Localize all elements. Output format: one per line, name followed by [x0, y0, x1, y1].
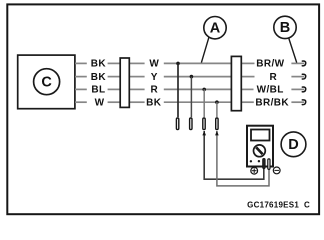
svg-text:BL: BL [91, 85, 105, 96]
svg-text:BR/BK: BR/BK [255, 97, 289, 108]
svg-text:W/BL: W/BL [257, 85, 284, 96]
svg-text:R: R [269, 72, 277, 83]
svg-text:B: B [280, 20, 290, 36]
svg-text:D: D [288, 137, 298, 153]
svg-text:BK: BK [91, 72, 107, 83]
svg-text:BK: BK [146, 97, 162, 108]
svg-text:A: A [210, 21, 221, 37]
svg-text:W: W [149, 59, 159, 70]
svg-text:W: W [95, 97, 105, 108]
svg-text:GC17619ES1 C: GC17619ES1 C [247, 200, 310, 209]
svg-text:BK: BK [91, 59, 107, 70]
svg-text:C: C [41, 75, 52, 91]
svg-text:R: R [150, 85, 158, 96]
svg-text:BR/W: BR/W [256, 59, 284, 70]
svg-text:Y: Y [151, 72, 158, 83]
